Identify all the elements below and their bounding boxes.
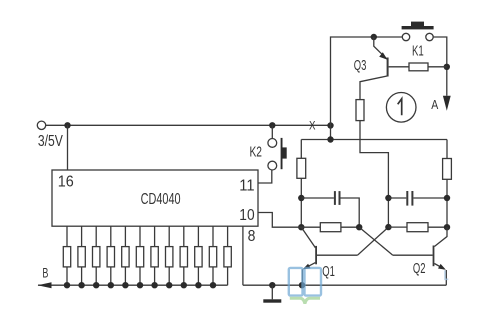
pushbutton SB xyxy=(402,22,434,41)
wire left rail xyxy=(300,178,302,227)
node K2 tap xyxy=(269,122,275,128)
node ground tap xyxy=(269,282,275,288)
wire pin 8 xyxy=(242,226,244,285)
indicator circle 1 xyxy=(386,93,416,123)
port A arrow xyxy=(443,96,451,111)
svg-text:8: 8 xyxy=(248,228,256,245)
svg-text:10: 10 xyxy=(239,207,254,224)
IC U1 CD4040 xyxy=(52,170,258,226)
resistor R3 xyxy=(356,100,364,121)
svg-text:Q3: Q3 xyxy=(354,57,367,74)
node C2 left xyxy=(385,195,391,201)
wire Q3 collector to K1 xyxy=(389,66,409,68)
node Q1 emitter xyxy=(299,282,305,288)
wire supply rail xyxy=(46,124,331,126)
node bus junctions xyxy=(64,282,216,288)
wire right branch xyxy=(446,140,448,159)
resistor R6 xyxy=(388,223,447,232)
capacitor C2 xyxy=(388,191,447,206)
node X2 xyxy=(327,136,333,142)
svg-text:Q1: Q1 xyxy=(322,263,335,280)
resistor ladder R7-R18 xyxy=(63,226,231,285)
svg-text:Q2: Q2 xyxy=(413,260,426,277)
resistor R5 xyxy=(301,223,359,232)
wire bottom rail xyxy=(243,284,446,286)
wire cross coupling 1 xyxy=(359,227,393,255)
wire button to right rail xyxy=(433,37,447,96)
wire cross coupling 2 xyxy=(358,227,389,255)
svg-text:K2: K2 xyxy=(250,144,263,161)
resistor R4 xyxy=(443,159,452,180)
relay contact K2 xyxy=(268,138,287,170)
node Q2 collector xyxy=(444,224,450,230)
node C1 left xyxy=(298,195,304,201)
wire left branch xyxy=(300,140,302,159)
relay coil K1 xyxy=(409,63,428,71)
svg-text:X: X xyxy=(309,121,316,133)
node X xyxy=(327,122,333,128)
wire Q3 base down xyxy=(360,76,388,100)
node R5 right xyxy=(356,224,362,230)
node pin16 tap xyxy=(64,122,70,128)
svg-text:A: A xyxy=(431,97,438,112)
svg-text:11: 11 xyxy=(239,177,254,194)
svg-text:3/5V: 3/5V xyxy=(38,133,63,150)
label 1 xyxy=(398,99,402,116)
svg-text:B: B xyxy=(42,265,48,280)
svg-text:16: 16 xyxy=(58,174,74,191)
wire pin 16 xyxy=(67,125,69,170)
capacitor C1 xyxy=(301,191,359,227)
wire right rail xyxy=(446,179,448,227)
terminal 3/5V xyxy=(37,121,45,129)
transistor Q1 xyxy=(301,227,357,285)
node C2 right xyxy=(444,195,450,201)
wire K1 to node xyxy=(428,66,447,68)
svg-text:K1: K1 xyxy=(412,43,424,60)
resistor R1 xyxy=(297,158,306,178)
transistor Q2 xyxy=(393,227,447,285)
wire K2 to supply xyxy=(271,125,273,138)
wire R3 to flipflop xyxy=(360,121,388,228)
svg-text:CD4040: CD4040 xyxy=(141,191,181,208)
node K1 output xyxy=(444,64,450,70)
wire pin 10 xyxy=(258,213,301,228)
watermark logo xyxy=(289,268,449,304)
node Q1 collector xyxy=(298,224,304,230)
node R6 left xyxy=(385,224,391,230)
ground xyxy=(263,285,281,302)
port B arrow xyxy=(38,282,52,288)
wire bus B xyxy=(38,284,228,286)
transistor Q3 xyxy=(374,37,389,77)
wire mid rail xyxy=(301,139,447,141)
wire X to button row xyxy=(331,37,403,126)
wire X link down xyxy=(330,126,332,140)
node Q3 emitter tap xyxy=(371,34,377,40)
wire pin 11 xyxy=(258,170,272,183)
